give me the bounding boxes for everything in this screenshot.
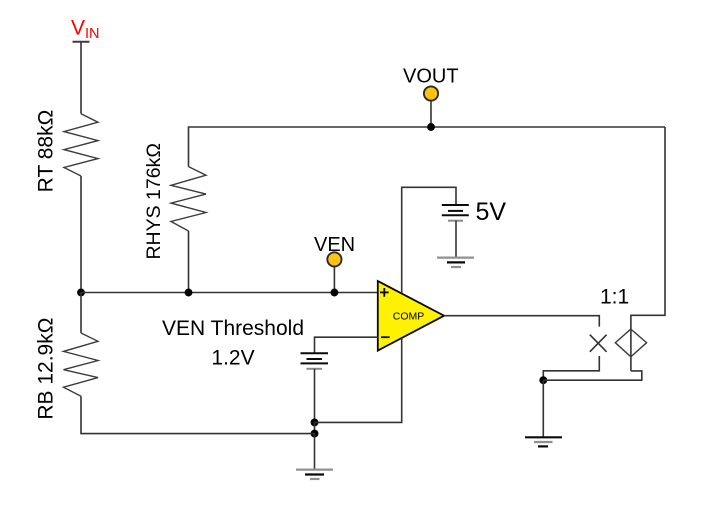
node C1 junction bbox=[311, 418, 319, 426]
wire right branch VOUT to diamond bbox=[631, 127, 665, 371]
wire battery B1 to ground bbox=[455, 221, 457, 258]
wire RHYS top to VOUT net bbox=[189, 127, 666, 167]
svg-text:1.2V: 1.2V bbox=[211, 347, 254, 370]
wire RT to node A bbox=[80, 176, 82, 293]
node C2 junction bbox=[311, 430, 319, 438]
svg-text:V: V bbox=[71, 17, 85, 40]
node VEN bbox=[314, 234, 355, 297]
node D junction bbox=[539, 376, 547, 384]
wire node D to ground bbox=[542, 380, 544, 437]
wire X return to node D bbox=[543, 356, 599, 380]
op-amp comparator U1 bbox=[378, 281, 444, 351]
wire main net to comparator + input bbox=[81, 292, 378, 294]
resistor RB bbox=[64, 333, 99, 396]
wire comparator output bbox=[444, 316, 599, 327]
wire RHYS to node B bbox=[188, 231, 190, 293]
svg-text:5V: 5V bbox=[476, 198, 507, 226]
transformer primary X bbox=[590, 335, 607, 352]
comparator V- pin wire bbox=[315, 339, 402, 423]
label 5V bbox=[476, 198, 507, 226]
node VOUT bbox=[403, 65, 459, 131]
ground G3 bbox=[525, 437, 562, 446]
wire RB bottom net bbox=[81, 396, 315, 433]
svg-text:VOUT: VOUT bbox=[403, 65, 459, 87]
terminal VIN tick bbox=[73, 41, 90, 43]
resistor RT bbox=[64, 114, 98, 176]
node B junction bbox=[185, 289, 193, 297]
ground G1 bbox=[437, 258, 474, 267]
label RT 88kΩ bbox=[35, 110, 58, 193]
wire VIN to RT bbox=[80, 42, 82, 114]
wire battery B2 to node C1 bbox=[314, 369, 316, 423]
wire comparator − input bbox=[315, 337, 379, 353]
label 1:1 bbox=[600, 286, 629, 309]
svg-text:RT 88kΩ: RT 88kΩ bbox=[35, 110, 58, 193]
comparator V+ pin wire bbox=[402, 187, 456, 293]
battery B2 VEN threshold bbox=[301, 353, 329, 369]
svg-text:COMP: COMP bbox=[393, 311, 425, 323]
ground G2 bbox=[296, 470, 333, 479]
wire diamond return to node D bbox=[543, 371, 642, 380]
wire node C1 to node C2 bbox=[314, 422, 316, 433]
svg-text:VEN Threshold: VEN Threshold bbox=[162, 317, 304, 340]
label RHYS 176kΩ bbox=[143, 143, 165, 259]
battery B1 5V bbox=[442, 205, 469, 221]
label RB 12.9kΩ bbox=[35, 318, 58, 420]
node VIN label bbox=[71, 17, 100, 43]
wire node C2 to ground bbox=[314, 434, 316, 470]
resistor RHYS bbox=[171, 167, 206, 231]
svg-text:RHYS 176kΩ: RHYS 176kΩ bbox=[143, 143, 165, 259]
wire RB top bbox=[80, 293, 82, 334]
svg-text:IN: IN bbox=[85, 26, 100, 42]
transformer secondary diamond bbox=[615, 329, 646, 357]
svg-text:RB 12.9kΩ: RB 12.9kΩ bbox=[35, 318, 58, 420]
node A junction bbox=[77, 289, 85, 297]
label VEN Threshold bbox=[162, 317, 304, 370]
svg-text:1:1: 1:1 bbox=[600, 286, 629, 309]
